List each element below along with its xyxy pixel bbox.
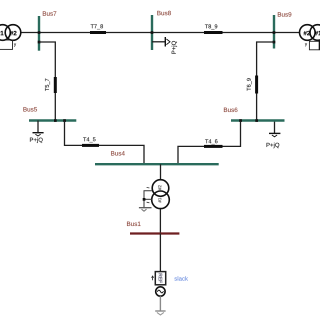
bus Bus7 (38, 16, 40, 51)
label Bus5 (23, 107, 37, 111)
transformer T2 (left, partially off-canvas) (0, 25, 21, 50)
label P+jQ (Bus5 load) (30, 137, 43, 143)
label #1 (T1 lower winding, rotated) (158, 198, 161, 203)
label Bus1 (127, 222, 141, 226)
bus Bus8 (151, 15, 153, 50)
wire: line T5_7 Bus7 to Bus5 (39, 42, 55, 121)
label Bus6 (224, 108, 238, 112)
label P+jQ (Bus6 load) (267, 143, 280, 149)
label #2 (right winding) (10, 31, 17, 35)
node: Bus5 / T5_7 junction (54, 119, 57, 122)
bus Bus1 (130, 232, 179, 234)
label y (right vector group) (305, 43, 307, 46)
label Bus9 (278, 12, 292, 16)
load at Bus6 (269, 121, 280, 137)
wire: external grid to ground (159, 296, 161, 311)
label T8_9 (205, 24, 217, 29)
node: Bus6 / T6_9 junction (255, 119, 258, 122)
transformer T3 (right, partially off-canvas) (300, 25, 320, 50)
label #1 (left winding, cut off) (0, 31, 4, 35)
line T6_9 symbol (255, 76, 258, 94)
label Bus4 (111, 151, 125, 155)
node: Bus6 / T4_6 junction (239, 119, 242, 122)
node: Bus7 / transformer junction (38, 31, 41, 34)
label T6_9 (rotated) (247, 78, 252, 90)
line T8_9 symbol (204, 31, 223, 34)
wire: Bus4 to transformer T1 (160, 164, 162, 180)
wire: Bus1 to external grid (159, 234, 161, 272)
bus Bus5 (29, 119, 76, 121)
wire: transformer T1 to Bus1 (159, 209, 161, 234)
wire: line T4_6 Bus6 to Bus4 (178, 121, 241, 165)
node: Bus9 / T6_9 junction (273, 41, 276, 44)
label T4_6 (205, 139, 217, 144)
line T4_6 symbol (204, 145, 223, 148)
label #2 (T1 upper winding, rotated) (158, 185, 161, 190)
label P+jQ (Bus8 load, rotated) (171, 41, 177, 54)
bus Bus9 (273, 15, 275, 49)
load at Bus8 (152, 37, 170, 47)
label y (vector group) (14, 43, 16, 46)
line T5_7 symbol (54, 77, 57, 93)
wire: line T4_5 Bus5 to Bus4 (65, 121, 145, 165)
node: Bus8 / line junction (151, 31, 154, 34)
line T7_8 symbol (90, 31, 106, 34)
bus Bus6 (231, 119, 285, 121)
node: Bus5 / T4_5 junction (63, 119, 66, 122)
label T7_8 (91, 24, 103, 29)
load at Bus5 (33, 121, 44, 137)
label Bus8 (157, 11, 171, 15)
label #1 (right transformer, cut off) (315, 31, 320, 35)
label Bus7 (43, 11, 57, 15)
label slack (174, 276, 188, 280)
label T4_5 (83, 137, 95, 142)
ground (T1 star points) (139, 187, 152, 211)
wire: main 230kV tie Bus7-Bus8-Bus9 (21, 32, 300, 34)
wire: line T6_9 Bus9 to Bus6 (257, 42, 274, 121)
bus Bus4 (95, 163, 219, 165)
node: Bus9 / line junction (273, 31, 276, 34)
node: Bus7 / T5_7 junction (38, 41, 41, 44)
line T4_5 symbol (82, 144, 99, 147)
label REF (rotated) (159, 274, 162, 283)
transformer T1 (Bus4-Bus1) (152, 180, 170, 209)
label #2 (right transformer left winding) (304, 31, 311, 35)
external grid (slack) (152, 272, 166, 297)
ground (slack) (155, 311, 165, 315)
label T5_7 (rotated) (45, 79, 50, 91)
